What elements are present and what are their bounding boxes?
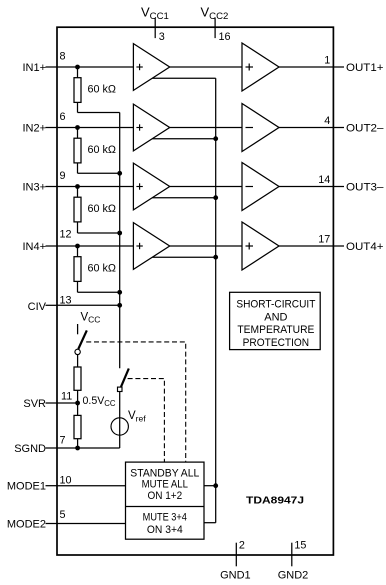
sign B4 (246, 245, 254, 247)
svg-text:MODE2: MODE2 (7, 518, 46, 530)
svg-text:OUT4+: OUT4+ (346, 241, 384, 253)
pin 6 IN2+ lead (46, 127, 58, 129)
svg-text:SHORT-CIRCUIT: SHORT-CIRCUIT (236, 299, 315, 311)
plus sign A1 (136, 66, 142, 68)
svg-text:SVR: SVR (23, 398, 46, 410)
junction bias bus / R3 (117, 231, 122, 236)
svg-text:TDA8947J: TDA8947J (246, 495, 304, 507)
svg-text:17: 17 (318, 234, 330, 246)
junction bias bus / R4 (117, 290, 122, 295)
pin 15 GND2 stub (291, 543, 293, 567)
bias bus wire (resistor commons to switch S2) (119, 113, 121, 369)
op-amp A3 input stage (133, 163, 169, 210)
op-amp B3 power stage (242, 163, 279, 211)
plus sign A4 (136, 245, 142, 247)
svg-text:STANDBY ALL: STANDBY ALL (130, 468, 199, 480)
wire IN3+ input to amp A3 (57, 186, 133, 188)
switch S1 contact (75, 349, 80, 354)
junction reference bus / standby logic (213, 483, 218, 488)
wire B2 output / pin 4 OUT2– (279, 127, 344, 129)
svg-text:OUT3–: OUT3– (346, 181, 384, 193)
node IN2+ / R2 tap (75, 125, 80, 130)
svg-text:PROTECTION: PROTECTION (243, 337, 310, 349)
svg-text:9: 9 (60, 170, 66, 182)
svg-text:7: 7 (60, 434, 66, 446)
svg-text:IN3+: IN3+ (22, 181, 46, 193)
svg-text:14: 14 (318, 174, 330, 186)
op-amp A2 input stage (133, 104, 169, 151)
wire B4 output / pin 17 OUT4+ (279, 245, 344, 247)
wire resistor R2 to bias bus (77, 163, 79, 173)
svg-text:IN4+: IN4+ (22, 241, 46, 253)
voltage source Vref (111, 418, 128, 435)
wire A3 feedback to reference bus (152, 197, 215, 199)
svg-text:GND1: GND1 (220, 570, 251, 582)
svg-text:6: 6 (60, 111, 66, 123)
svg-text:IN1+: IN1+ (22, 62, 46, 74)
wire IN1+ input to amp A1 (57, 66, 133, 68)
wire IN2+ input to amp A2 (57, 127, 133, 129)
wire A3 output to power amp B3 (170, 186, 242, 188)
wire SGND to Vref (57, 447, 120, 449)
wire S1 to resistor R5 (77, 355, 79, 367)
svg-text:CIV: CIV (28, 301, 47, 313)
pin 16 VCC2 stub (214, 18, 216, 38)
svg-text:11: 11 (61, 390, 72, 402)
wire A2 output to power amp B2 (170, 127, 242, 129)
resistor R4 60 kOhm (74, 257, 81, 282)
sign B1 (246, 66, 254, 68)
wire R5 to SVR node (77, 390, 79, 403)
switch S1 blade (78, 330, 87, 349)
wire node to resistor R2 (77, 128, 79, 139)
svg-text:5: 5 (60, 509, 66, 521)
svg-text:15: 15 (294, 540, 306, 552)
svg-text:OUT1+: OUT1+ (346, 62, 384, 74)
node IN1+ / R1 tap (75, 65, 80, 70)
pin 10 MODE1 lead (46, 485, 58, 487)
wire SVR pin to node (57, 402, 78, 404)
svg-text:IN2+: IN2+ (22, 122, 46, 134)
switch S2 blade (121, 369, 129, 387)
wire MODE1 to logic box (57, 485, 126, 487)
control line S1 (dashed) from STANDBY/MUTE logic (86, 342, 186, 462)
pin 13 CIV lead (46, 304, 58, 306)
wire B3 output / pin 14 OUT3– (279, 186, 344, 188)
wire B1 output / pin 1 OUT1+ (279, 66, 344, 68)
pin 3 VCC1 stub (154, 18, 156, 38)
svg-text:MUTE 3+4: MUTE 3+4 (143, 511, 187, 523)
svg-text:13: 13 (60, 294, 72, 306)
pin 8 IN1+ lead (46, 66, 58, 68)
wire standby logic to reference bus (204, 485, 216, 487)
svg-text:AND: AND (264, 311, 287, 323)
wire A1 output to power amp B1 (170, 66, 242, 68)
svg-text:2: 2 (239, 540, 245, 552)
control line S2 (dashed) from MUTE 3+4 logic (128, 379, 165, 463)
wire CIV to bias bus (57, 304, 120, 306)
svg-text:60 kΩ: 60 kΩ (88, 203, 116, 215)
wire A1 feedback / reference bus (152, 77, 215, 79)
pin 11 SVR lead (46, 402, 58, 404)
resistor R3 60 kOhm (74, 197, 81, 222)
wire R6 to SGND (77, 439, 79, 448)
wire node to resistor R4 (77, 246, 79, 257)
sign B3 (246, 186, 254, 188)
resistor R5 (74, 367, 81, 390)
junction bias bus / R2 (117, 171, 122, 176)
node SVR (75, 401, 80, 406)
wire node to resistor R3 (77, 187, 79, 198)
svg-text:4: 4 (324, 115, 330, 127)
op-amp A4 input stage (133, 223, 169, 270)
op-amp B4 power stage (242, 222, 279, 270)
divider mode logic box (126, 506, 205, 508)
svg-text:12: 12 (60, 229, 72, 241)
pin 2 GND1 stub (235, 543, 237, 567)
op-amp B2 power stage (242, 104, 279, 152)
svg-text:60 kΩ: 60 kΩ (88, 263, 116, 275)
svg-text:60 kΩ: 60 kΩ (88, 84, 116, 96)
svg-text:ON 3+4: ON 3+4 (147, 524, 183, 536)
svg-text:10: 10 (60, 475, 72, 487)
svg-text:SGND: SGND (14, 443, 46, 455)
pin 9 IN3+ lead (46, 186, 58, 188)
mode logic box STANDBY/MUTE (126, 462, 205, 539)
svg-text:GND2: GND2 (278, 570, 309, 582)
switch S2 contact (118, 387, 123, 391)
wire A4 output to power amp B4 (170, 245, 242, 247)
svg-text:TEMPERATURE: TEMPERATURE (237, 324, 314, 336)
sign B2 (246, 127, 254, 129)
protection block SHORT-CIRCUIT AND TEMPERATURE PROTECTION (230, 292, 321, 349)
op-amp A1 input stage (133, 44, 169, 91)
junction bias bus / CIV (117, 303, 122, 308)
wire resistor R1 to bias bus (77, 102, 79, 112)
node IN4+ / R4 tap (75, 244, 80, 249)
resistor R2 60 kOhm (74, 138, 81, 163)
wire A2 feedback to reference bus (152, 138, 215, 140)
svg-text:16: 16 (219, 31, 231, 43)
plus sign A2 (136, 127, 142, 129)
svg-text:ON 1+2: ON 1+2 (147, 490, 182, 502)
wire A4 feedback to reference bus (152, 256, 215, 258)
svg-text:60 kΩ: 60 kΩ (88, 144, 116, 156)
pin 5 MODE2 lead (46, 523, 58, 525)
svg-text:1: 1 (324, 55, 330, 67)
wire resistor R4 to bias bus (77, 281, 79, 292)
wire node to resistor R1 (77, 67, 79, 78)
svg-text:MUTE ALL: MUTE ALL (142, 479, 188, 491)
node IN3+ / R3 tap (75, 184, 80, 189)
pin 7 SGND lead (46, 447, 58, 449)
wire IN4+ input to amp A4 (57, 245, 133, 247)
svg-text:OUT2–: OUT2– (346, 122, 384, 134)
node SGND / R6 (75, 446, 80, 451)
op-amp B1 power stage (242, 43, 279, 91)
power rail VCC stub (S1) (77, 324, 79, 334)
pin 12 IN4+ lead (46, 245, 58, 247)
junction reference bus / A3 (213, 195, 218, 200)
wire MODE2 to logic box (57, 523, 126, 525)
resistor R1 60 kOhm (74, 78, 81, 103)
wire SVR node to resistor R6 (77, 403, 79, 415)
svg-text:MODE1: MODE1 (7, 481, 46, 493)
junction reference bus / A2 (213, 136, 218, 141)
junction reference bus / A4 (213, 255, 218, 260)
resistor R6 (74, 415, 81, 438)
plus sign A3 (136, 186, 142, 188)
IC outline TDA8947J (57, 27, 333, 555)
svg-text:8: 8 (60, 51, 66, 63)
wire resistor R3 to bias bus (77, 222, 79, 233)
svg-text:3: 3 (159, 31, 165, 43)
